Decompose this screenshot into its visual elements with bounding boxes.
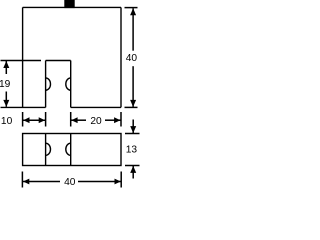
dim 40 right: line upper [132, 8, 134, 50]
dim 40 bottom: right tick [120, 172, 122, 188]
projection tick x=70.7 [70, 112, 72, 127]
bottom edge right segment [71, 106, 121, 108]
projection tick x=121 [120, 112, 122, 127]
slot left wall [45, 61, 47, 108]
dim 19 down arrow [3, 100, 9, 107]
svg-text:13: 13 [126, 145, 138, 156]
internal line left [45, 134, 47, 166]
dimension graphics [1, 8, 140, 188]
dim 40 right up arrow [130, 8, 136, 15]
internal right semicircle bump [66, 143, 71, 155]
internal left semicircle bump [46, 143, 51, 155]
dim 40 bottom right arrow [115, 179, 121, 185]
projection tick x=45.6 [45, 112, 47, 127]
dim 10 left arrow [23, 117, 29, 123]
dim 20: line left segment [71, 119, 86, 121]
bottom view rect [23, 134, 121, 166]
dim 13 down arrow (above top tick) [130, 126, 136, 133]
dim 40 right: line lower [132, 66, 134, 107]
dim 40 bottom: left tick [21, 172, 23, 188]
dim 40 bottom left arrow [23, 179, 29, 185]
svg-text:20: 20 [90, 116, 102, 127]
bottom edge left segment (extended to x=0 as extension line) [1, 106, 46, 108]
svg-text:40: 40 [64, 177, 76, 188]
dim 10 right arrow [39, 117, 45, 123]
slot right semicircle bump [66, 78, 71, 90]
bottom view outline [23, 134, 121, 166]
slot left semicircle bump [46, 78, 51, 90]
svg-text:19: 19 [0, 79, 11, 90]
right edge [120, 7, 122, 107]
top edge [23, 6, 121, 8]
dim 19: line upper segment [5, 61, 7, 74]
dim 40 right: bottom tick [125, 106, 138, 108]
dim 13: top tick [125, 133, 140, 135]
dimension texts [0, 53, 137, 188]
dim 40 bottom: line right segment [78, 181, 121, 183]
svg-text:10: 10 [1, 116, 13, 127]
slot top edge [46, 60, 71, 62]
svg-text:40: 40 [126, 53, 138, 64]
dim 20 right arrow [114, 117, 120, 123]
dim 19: extension tick [1, 60, 42, 62]
projection tick x=22.6 [22, 112, 24, 127]
dim 40 right down arrow [130, 100, 136, 107]
dim 19: line lower segment [5, 92, 7, 107]
dim 40 bottom: line left segment [23, 181, 60, 183]
dim 40 right: top tick [125, 7, 138, 9]
top view outline [1, 7, 122, 107]
dim 20 left arrow [71, 117, 77, 123]
dim 20: line right segment [105, 119, 121, 121]
dim 10: line [23, 119, 46, 121]
dim 13 up arrow (below bottom tick) [130, 166, 136, 173]
left edge [22, 7, 24, 107]
dim 13: bottom stem [132, 166, 134, 179]
dim 13: bottom tick [125, 165, 140, 167]
black tab on top edge [64, 0, 74, 8]
arrowheads [3, 8, 136, 184]
dim 19 up arrow [3, 61, 9, 68]
internal line right [70, 134, 72, 166]
dim 13: top stem [132, 120, 134, 134]
slot right wall [70, 61, 72, 108]
